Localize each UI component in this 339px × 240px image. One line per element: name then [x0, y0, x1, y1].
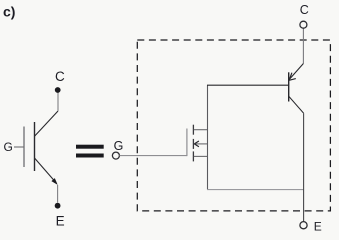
svg-text:C: C — [55, 69, 65, 84]
svg-text:G: G — [4, 140, 13, 154]
svg-text:G: G — [114, 139, 124, 153]
svg-text:E: E — [314, 220, 322, 234]
node E terminal circle (right) — [300, 222, 307, 229]
MOSFET channel segment middle — [192, 139, 194, 149]
wire emitter lead (left symbol) — [57, 185, 59, 203]
wire gate lead (left symbol) — [14, 146, 24, 148]
node E terminal dot (left symbol) — [55, 203, 61, 209]
MOSFET U1 gate bar — [186, 129, 188, 157]
equals sign — [76, 145, 104, 158]
node C terminal circle (right) — [300, 21, 307, 28]
MOSFET channel segment top — [192, 125, 194, 135]
IGBT Q1 body bar — [34, 122, 36, 171]
svg-text:C: C — [300, 3, 309, 17]
dashed equivalent-circuit box — [137, 40, 330, 211]
IGBT Q1 gate bar — [23, 127, 25, 168]
wire left rail (drain/source vertical) — [207, 85, 209, 189]
wire gate lead (MOSFET) — [120, 155, 187, 157]
wire E vertical (right) — [303, 113, 305, 221]
node G terminal circle — [112, 152, 119, 159]
wire collector lead (left symbol) — [57, 93, 59, 112]
node C terminal dot (left symbol) — [55, 87, 61, 93]
wire top (drain to base) — [207, 84, 289, 86]
wire source stub — [194, 155, 208, 157]
wire body stub with arrow — [194, 141, 207, 147]
wire bottom (source to emitter terminal) — [207, 189, 304, 191]
wire drain stub — [194, 129, 208, 131]
svg-text:c): c) — [3, 4, 15, 20]
wire C lead vertical (right) — [302, 28, 304, 63]
MOSFET channel segment bottom — [192, 151, 194, 161]
wire emitter diagonal with arrow (left symbol) — [35, 158, 58, 185]
wire Q2 collector diagonal — [289, 96, 304, 113]
wire collector diagonal (left symbol) — [35, 111, 59, 136]
wire Q2 emitter diagonal with arrow — [289, 64, 303, 81]
svg-text:E: E — [56, 213, 65, 228]
transistor Q2 base bar — [288, 72, 290, 101]
